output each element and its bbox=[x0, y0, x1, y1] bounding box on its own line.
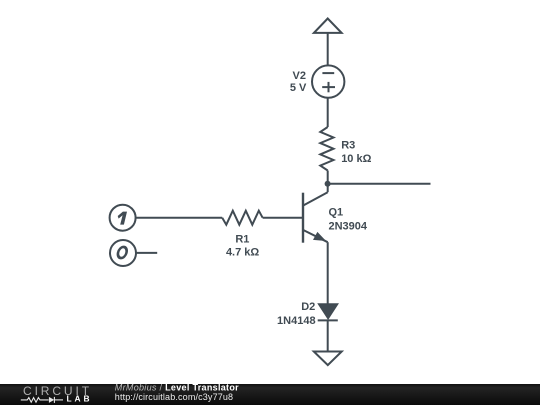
svg-text:2N3904: 2N3904 bbox=[329, 220, 368, 232]
svg-text:R1: R1 bbox=[235, 233, 249, 245]
svg-text:10 kΩ: 10 kΩ bbox=[341, 153, 371, 165]
resistor R1 bbox=[222, 211, 262, 225]
node 1 terminal bbox=[110, 205, 136, 231]
svg-text:4.7 kΩ: 4.7 kΩ bbox=[226, 247, 259, 259]
wire node 0 stub bbox=[136, 252, 157, 254]
svg-text:R3: R3 bbox=[341, 140, 355, 152]
svg-text:D2: D2 bbox=[301, 301, 315, 313]
svg-text:1N4148: 1N4148 bbox=[277, 315, 316, 327]
power flag VCC (top arrow) bbox=[314, 19, 342, 33]
svg-text:LAB: LAB bbox=[67, 394, 93, 404]
svg-text:V2: V2 bbox=[293, 70, 306, 82]
node 0 terminal bbox=[110, 240, 136, 266]
wire collector net to right bbox=[328, 183, 431, 185]
wire diode to ground bbox=[327, 320, 329, 351]
svg-text:5 V: 5 V bbox=[290, 82, 307, 94]
wire R1 to base bbox=[263, 217, 302, 219]
diode D2 bbox=[318, 304, 338, 320]
resistor R3 bbox=[320, 127, 333, 171]
transistor Q1 bbox=[303, 192, 328, 243]
svg-text:http://circuitlab.com/c3y77u8: http://circuitlab.com/c3y77u8 bbox=[115, 392, 233, 402]
CircuitLab logo schematic squiggle bbox=[21, 397, 63, 403]
ground bbox=[314, 352, 342, 366]
voltage source V2 bbox=[312, 65, 344, 97]
node junction dot bbox=[325, 181, 331, 187]
wire emitter to diode bbox=[327, 242, 329, 304]
wire node 1 to R1 bbox=[136, 217, 223, 219]
wire VCC to V2 bbox=[327, 33, 329, 65]
wire V2 to R3 bbox=[327, 97, 329, 127]
svg-text:Q1: Q1 bbox=[329, 207, 344, 219]
wire R3 to collector node bbox=[327, 171, 329, 193]
svg-text:MrMobius / Level Translator: MrMobius / Level Translator bbox=[115, 382, 239, 392]
